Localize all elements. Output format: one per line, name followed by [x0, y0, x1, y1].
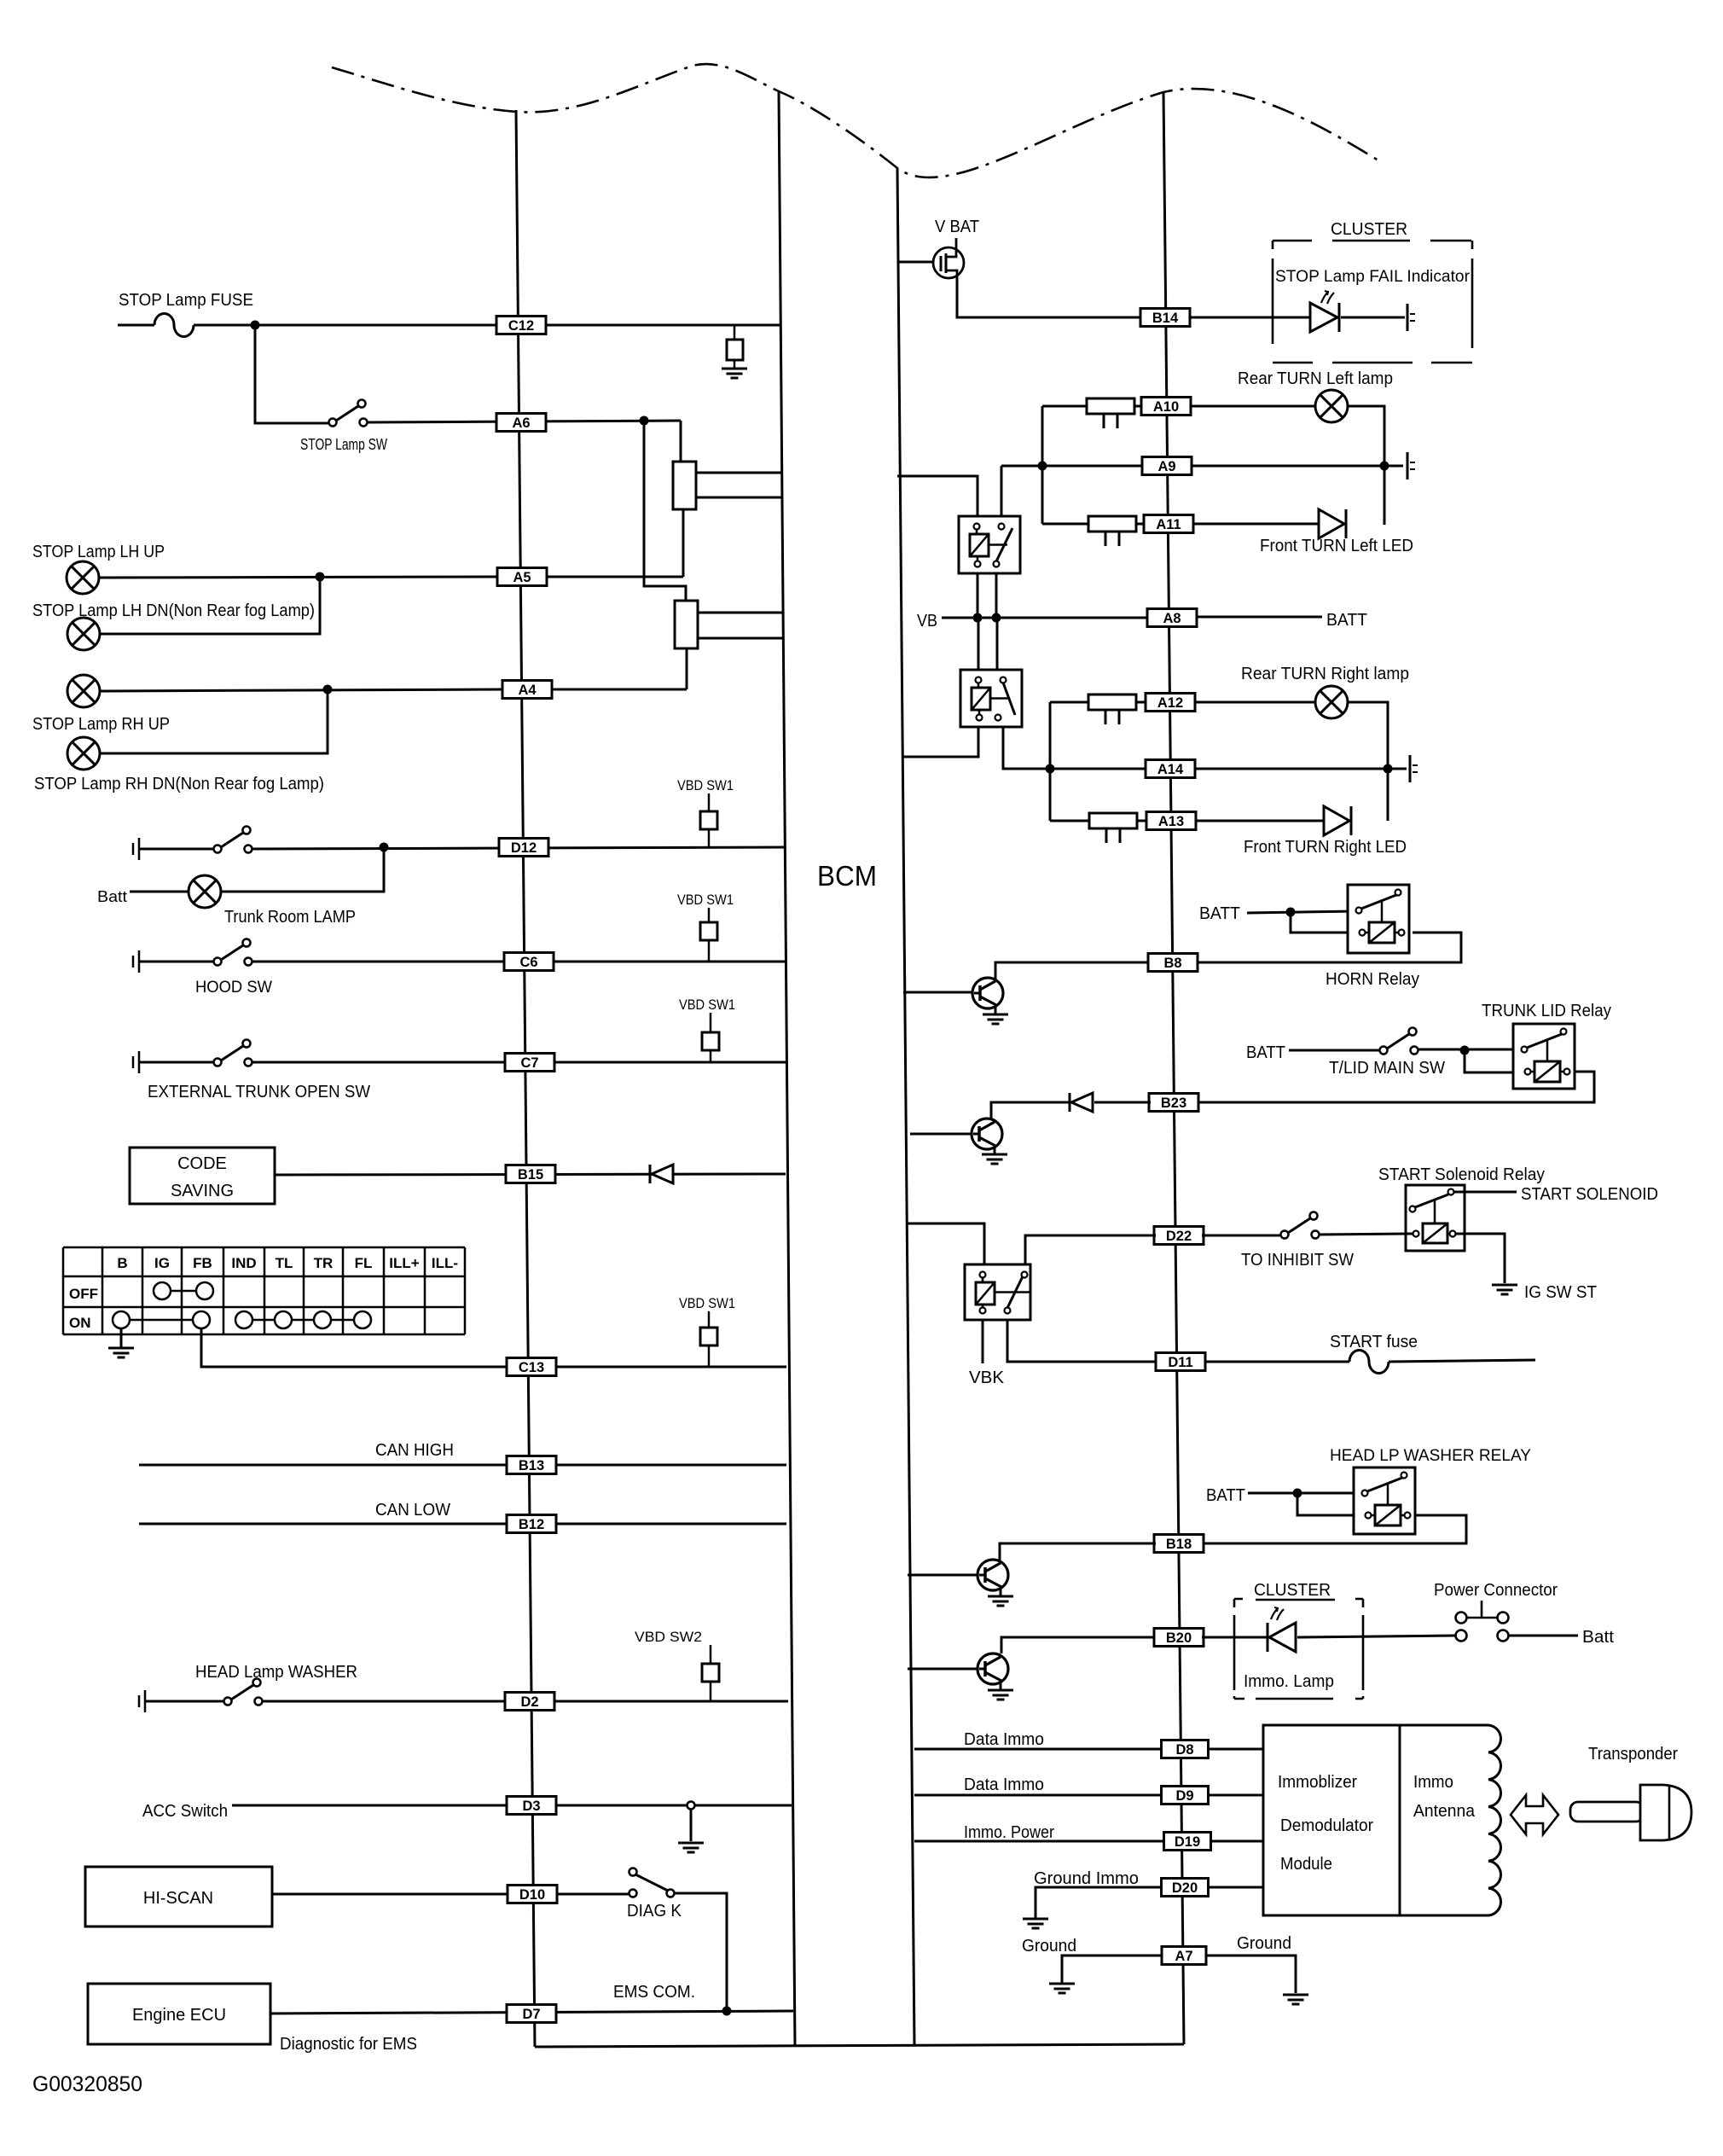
svg-text:Ground: Ground	[1237, 1934, 1291, 1953]
resistor A10 ballast	[1087, 398, 1134, 428]
node RH junction	[323, 685, 333, 694]
wire start coil to IG SW ST ground	[1455, 1234, 1505, 1283]
connector pin A4	[502, 681, 552, 699]
connector pin D10	[508, 1886, 557, 1903]
transistor Q2 trunk driver	[972, 1119, 1002, 1149]
connector pin A8	[1147, 609, 1197, 627]
wire A14 line	[1050, 768, 1388, 770]
svg-text:EMS COM.: EMS COM.	[613, 1983, 695, 2002]
svg-text:IG: IG	[154, 1255, 170, 1271]
svg-text:Data Immo: Data Immo	[964, 1775, 1044, 1794]
wire B contact to ground	[120, 1328, 123, 1348]
wire VBK BL stub	[982, 1320, 984, 1363]
wire gnd to trunk switch	[139, 848, 213, 851]
wire immo LED to power connector	[1297, 1636, 1455, 1637]
ground chassis at hood switch	[133, 950, 139, 973]
diode at B15	[650, 1165, 673, 1183]
wire hood switch to C6 to BCM	[252, 961, 785, 963]
resistor A12 ballast	[1088, 694, 1136, 724]
node trunk lamp junction	[380, 843, 389, 852]
fuse STOP Lamp FUSE	[154, 314, 194, 337]
svg-text:Rear TURN Right lamp: Rear TURN Right lamp	[1241, 665, 1409, 683]
svg-text:CLUSTER: CLUSTER	[1331, 220, 1407, 239]
svg-text:VBD SW2: VBD SW2	[635, 1629, 702, 1645]
wire junction to A11 resistor	[1042, 523, 1088, 526]
svg-text:D22: D22	[1166, 1229, 1192, 1244]
svg-text:A12: A12	[1157, 695, 1183, 711]
wire block2 bottom to A4 line	[686, 648, 688, 689]
svg-text:OFF: OFF	[69, 1286, 98, 1302]
node VB relay1 left	[973, 613, 983, 623]
svg-text:HORN Relay: HORN Relay	[1326, 970, 1419, 989]
switch trunk room lamp switch	[214, 827, 252, 853]
switch TO INHIBIT SW	[1281, 1212, 1320, 1239]
LED STOP Lamp FAIL Indicator	[1310, 303, 1339, 332]
svg-text:D3: D3	[522, 1799, 540, 1814]
node A14 junction	[1046, 764, 1055, 774]
block HI-SCAN	[85, 1867, 272, 1926]
wire junction to washer coil	[1297, 1493, 1361, 1515]
wire right connector bus	[1163, 92, 1184, 2044]
wire relay to START SOLENOID	[1454, 1191, 1517, 1194]
wire junction to trunk coil	[1465, 1050, 1520, 1072]
wire BCM to flasher relay 1	[897, 476, 978, 516]
switch STOP Lamp SW	[329, 400, 368, 427]
connector pin D2	[505, 1693, 554, 1711]
wire B8 to horn relay coil	[1197, 933, 1461, 962]
svg-text:A6: A6	[512, 416, 530, 431]
wire Q3 emitter to ground	[1000, 1587, 1002, 1595]
svg-text:FL: FL	[355, 1255, 373, 1271]
wire BCM to Q1 base	[903, 991, 972, 994]
wire block1 out lower	[696, 497, 781, 499]
block CODE SAVING	[130, 1148, 275, 1204]
connector pin A6	[496, 414, 546, 432]
svg-text:IND: IND	[231, 1255, 256, 1271]
svg-text:HI-SCAN: HI-SCAN	[143, 1889, 213, 1908]
connector pin C13	[507, 1358, 556, 1376]
block CLUSTER dashed outline	[1273, 241, 1472, 363]
wire RH UP lamp to A4	[100, 689, 502, 691]
svg-text:B: B	[117, 1255, 127, 1271]
connector pin B20	[1154, 1629, 1204, 1647]
wire BCM to Q3 base	[908, 1574, 978, 1577]
connector pin A13	[1146, 812, 1196, 830]
symbol indicator arrows B14	[1321, 291, 1334, 304]
LED Immo. Lamp	[1268, 1623, 1296, 1652]
wire A11 to front left LED	[1192, 523, 1319, 526]
connector pin A12	[1146, 694, 1195, 712]
wire LH UP lamp to A5	[99, 577, 496, 578]
wire VB to flasher relay 2 left	[978, 618, 980, 670]
wire D9 to module	[1209, 1794, 1263, 1797]
svg-text:G00320850: G00320850	[32, 2072, 142, 2096]
svg-text:C6: C6	[519, 955, 537, 970]
wire B20 to immo LED	[1202, 1636, 1269, 1639]
wire junction down to stop lamp switch	[255, 325, 328, 423]
wire lamp to right rail 2	[1348, 702, 1388, 821]
node right rail junction	[1380, 462, 1389, 471]
ground below sense resistor	[722, 369, 747, 378]
wire D22 to inhibit switch	[1202, 1235, 1281, 1237]
connector pin A7	[1162, 1947, 1206, 1965]
wire A9 junction bus	[1041, 406, 1044, 524]
svg-text:TRUNK LID Relay: TRUNK LID Relay	[1482, 1002, 1611, 1020]
wire D19 line	[914, 1840, 1164, 1843]
svg-text:Ground Immo: Ground Immo	[1034, 1869, 1139, 1888]
lamp STOP Lamp RH UP	[67, 675, 100, 707]
wire diode to Q2	[991, 1102, 1070, 1119]
svg-text:START Solenoid Relay: START Solenoid Relay	[1378, 1165, 1545, 1184]
svg-text:D8: D8	[1175, 1742, 1193, 1758]
wire D20 ground line	[1036, 1887, 1162, 1918]
wire washer switch to D2 to BCM	[263, 1700, 788, 1703]
transistor Q4 immo lamp driver	[978, 1653, 1008, 1684]
svg-text:STOP Lamp LH UP: STOP Lamp LH UP	[32, 543, 165, 561]
wire block2 out upper	[698, 612, 782, 614]
svg-text:Immo. Lamp: Immo. Lamp	[1244, 1672, 1334, 1691]
svg-text:A9: A9	[1157, 459, 1175, 474]
svg-text:HEAD Lamp WASHER: HEAD Lamp WASHER	[195, 1663, 357, 1682]
terminal end A9 line	[1407, 452, 1415, 479]
svg-text:Trunk Room LAMP: Trunk Room LAMP	[224, 908, 356, 927]
relay VBK	[965, 1264, 1030, 1320]
svg-text:ON: ON	[69, 1315, 91, 1331]
lamp STOP Lamp RH DN	[67, 737, 100, 770]
svg-text:B8: B8	[1163, 956, 1181, 971]
svg-text:Immo. Power: Immo. Power	[964, 1823, 1054, 1842]
svg-text:A10: A10	[1153, 399, 1179, 415]
svg-text:SAVING: SAVING	[171, 1182, 234, 1200]
wire Engine ECU to D7 to BCM	[270, 2011, 793, 2014]
svg-text:TO INHIBIT SW: TO INHIBIT SW	[1241, 1251, 1354, 1270]
svg-text:Rear TURN Left lamp: Rear TURN Left lamp	[1238, 369, 1393, 388]
connector pin A9	[1142, 457, 1192, 475]
connector pin A14	[1146, 760, 1195, 778]
connector pin D9	[1162, 1787, 1209, 1804]
wire gnd to ext trunk switch	[139, 1061, 213, 1064]
ground IG SW ST	[1492, 1285, 1517, 1294]
wire inhibit switch to start coil	[1319, 1234, 1413, 1235]
resistor A11 ballast	[1088, 516, 1136, 546]
wire A7 to ground right	[1206, 1956, 1296, 1993]
svg-text:VBK: VBK	[969, 1369, 1005, 1387]
symbol transponder coupling arrow	[1511, 1795, 1558, 1834]
lamp Rear TURN Right lamp	[1315, 686, 1348, 718]
svg-text:BATT: BATT	[1246, 1043, 1285, 1062]
ground A7 left	[1049, 1984, 1075, 1993]
transistor Q1 horn driver	[972, 978, 1003, 1008]
wire block1 out upper	[696, 472, 781, 474]
ground Q4 emitter	[988, 1690, 1013, 1700]
svg-text:Ground: Ground	[1022, 1937, 1076, 1956]
terminal end A14 line	[1410, 755, 1418, 782]
svg-text:IG SW ST: IG SW ST	[1524, 1283, 1597, 1302]
svg-text:D9: D9	[1175, 1788, 1193, 1804]
wire BCM bottom edge	[535, 2044, 1184, 2047]
lamp Rear TURN Left lamp	[1315, 390, 1348, 422]
wire resistor to A11	[1136, 523, 1145, 526]
svg-text:Module: Module	[1280, 1855, 1332, 1874]
wire Q1 collector to B8	[995, 962, 1149, 981]
component VBD SW1 box	[700, 908, 717, 962]
block Engine ECU	[88, 1984, 270, 2044]
svg-text:VBD SW1: VBD SW1	[679, 1295, 735, 1311]
node horn batt junction	[1286, 908, 1296, 917]
switch HEAD Lamp WASHER	[224, 1679, 263, 1706]
wire resistor to A10	[1134, 405, 1142, 408]
lamp Trunk Room LAMP	[189, 875, 221, 908]
svg-text:B20: B20	[1166, 1630, 1192, 1646]
connector pin A11	[1144, 515, 1193, 533]
svg-text:CODE: CODE	[177, 1154, 227, 1173]
relay turn flasher left	[959, 516, 1020, 573]
node tap on D3 line	[687, 1802, 695, 1810]
block Immo Antenna coil	[1400, 1725, 1501, 1915]
wire resistor to A12	[1136, 701, 1146, 704]
svg-text:HEAD LP WASHER RELAY: HEAD LP WASHER RELAY	[1330, 1447, 1531, 1465]
relay HEAD LP WASHER	[1354, 1467, 1415, 1534]
svg-text:TR: TR	[314, 1255, 334, 1271]
wire BATT to t/lid switch	[1289, 1049, 1379, 1052]
svg-text:STOP Lamp RH DN(Non Rear fog L: STOP Lamp RH DN(Non Rear fog Lamp)	[34, 775, 324, 793]
svg-text:T/LID MAIN SW: T/LID MAIN SW	[1329, 1059, 1445, 1078]
svg-text:Antenna: Antenna	[1413, 1802, 1476, 1821]
fuse START fuse	[1349, 1351, 1389, 1374]
symbol indicator arrows immo	[1271, 1607, 1284, 1620]
wire A8 to BATT	[1196, 616, 1322, 619]
wire ext trunk switch to C7 to BCM	[252, 1061, 786, 1064]
connector pin D8	[1162, 1740, 1209, 1758]
svg-text:START SOLENOID: START SOLENOID	[1521, 1185, 1658, 1204]
svg-text:D7: D7	[522, 2007, 540, 2022]
LED Front TURN Left	[1319, 509, 1346, 538]
svg-text:STOP Lamp LH DN(Non Rear fog L: STOP Lamp LH DN(Non Rear fog Lamp)	[32, 601, 315, 620]
node VB relay1 right	[992, 613, 1001, 623]
connector pin B12	[507, 1515, 556, 1533]
ground chassis at washer switch	[139, 1690, 145, 1712]
wire junction to trunk lamp	[221, 847, 384, 892]
svg-text:D20: D20	[1172, 1880, 1198, 1896]
table OFF contacts IG-FB	[154, 1282, 213, 1299]
wire D9 line	[914, 1794, 1162, 1797]
svg-text:C13: C13	[519, 1360, 544, 1375]
svg-text:B23: B23	[1161, 1095, 1186, 1111]
svg-text:B12: B12	[519, 1517, 544, 1532]
svg-text:D2: D2	[520, 1694, 538, 1710]
svg-text:STOP Lamp FAIL Indicator: STOP Lamp FAIL Indicator	[1275, 268, 1471, 286]
svg-text:D12: D12	[511, 840, 537, 856]
diode at B23	[1070, 1093, 1093, 1112]
svg-text:Batt: Batt	[1582, 1628, 1614, 1647]
wire A12-A13 junction bus	[1049, 702, 1052, 821]
wire t/lid switch to relay	[1418, 1049, 1517, 1051]
component VBD SW2 box	[702, 1645, 719, 1701]
node A6 branch	[640, 416, 649, 426]
wire switch to A6 to junction	[368, 421, 681, 422]
ground chassis at trunk switch	[133, 838, 139, 860]
wire BCM to Q2 base	[910, 1133, 972, 1136]
svg-text:A5: A5	[513, 570, 531, 585]
connector pin C12	[496, 317, 546, 334]
svg-text:BCM: BCM	[817, 860, 877, 892]
connector pin B18	[1154, 1535, 1204, 1553]
relay START Solenoid Relay	[1406, 1185, 1465, 1251]
lamp STOP Lamp LH UP	[67, 561, 99, 594]
transistor V BAT high-side driver	[933, 238, 964, 278]
connector pin B23	[1149, 1094, 1198, 1112]
connector pin C6	[504, 953, 554, 971]
connector pin A10	[1141, 398, 1191, 416]
svg-text:A7: A7	[1175, 1949, 1192, 1964]
svg-text:Demodulator: Demodulator	[1280, 1816, 1373, 1835]
svg-text:Transponder: Transponder	[1588, 1745, 1678, 1764]
lamp STOP Lamp LH DN	[67, 618, 100, 650]
wire BCM to V BAT gate	[897, 261, 934, 264]
wire resistor to A13	[1137, 820, 1147, 822]
svg-text:Diagnostic for EMS: Diagnostic for EMS	[280, 2035, 417, 2054]
wire B18 to Q3 collector	[1000, 1543, 1156, 1560]
svg-text:A14: A14	[1157, 762, 1184, 777]
wire D3 tap to ground	[690, 1809, 693, 1841]
LED Front TURN Right	[1324, 806, 1351, 835]
wire relay2 BL to BCM	[903, 727, 978, 757]
wire Q4 emitter to ground	[1000, 1681, 1002, 1689]
wire VB to flasher relay 2 right	[996, 618, 999, 670]
wire A6 to resistor block 1	[680, 421, 682, 462]
svg-text:Immo: Immo	[1413, 1773, 1453, 1792]
node A9 junction	[1038, 462, 1047, 471]
svg-text:C12: C12	[508, 318, 534, 334]
wire VBK BR to D11	[1007, 1320, 1156, 1362]
component dropping resistor block 2	[675, 601, 698, 648]
svg-text:FB: FB	[193, 1255, 212, 1271]
connector pin B14	[1140, 309, 1190, 327]
table ON contacts B-FB and IND-TL-TR-FL	[113, 1311, 371, 1328]
wire power connector to Batt	[1509, 1635, 1578, 1637]
component VBD SW1 box	[702, 1013, 719, 1062]
svg-text:Engine ECU: Engine ECU	[132, 2006, 226, 2025]
wire RH DN lamp branch	[100, 689, 328, 753]
svg-text:VBD SW1: VBD SW1	[679, 997, 735, 1013]
wire BCM right wall	[897, 168, 914, 2045]
wire junction to A13 resistor	[1050, 820, 1089, 822]
node washer batt junction	[1293, 1489, 1302, 1498]
svg-text:BATT: BATT	[1326, 611, 1367, 630]
wire BATT branch to horn coil	[1291, 912, 1356, 933]
wire A12 to rear right lamp	[1194, 701, 1315, 704]
connector pin D22	[1154, 1227, 1204, 1245]
wire ground to A7	[1062, 1956, 1162, 1984]
connector pin C7	[505, 1054, 554, 1072]
svg-text:VB: VB	[917, 612, 937, 631]
wire BATT to washer relay	[1248, 1492, 1361, 1495]
wire relay1 BL down	[977, 573, 979, 618]
svg-text:D10: D10	[519, 1887, 545, 1903]
svg-text:STOP Lamp SW: STOP Lamp SW	[300, 436, 387, 453]
wire A5 to block1	[547, 576, 683, 578]
svg-text:EXTERNAL TRUNK OPEN SW: EXTERNAL TRUNK OPEN SW	[148, 1083, 370, 1101]
svg-text:A4: A4	[518, 683, 537, 698]
wire lamp to right rail	[1348, 406, 1384, 525]
switch T/LID MAIN SW	[1380, 1028, 1418, 1055]
svg-text:D19: D19	[1175, 1834, 1200, 1850]
component sense resistor at C12	[727, 325, 743, 369]
wire D20 to module	[1209, 1886, 1263, 1889]
wire BATT to horn relay switch	[1247, 911, 1356, 913]
wire CAN HIGH	[139, 1464, 786, 1467]
wire left connector bus	[516, 110, 535, 2047]
ground chassis at ext trunk switch	[133, 1051, 139, 1073]
wire trunk switch to D12 to BCM	[252, 847, 784, 849]
svg-text:STOP Lamp FUSE: STOP Lamp FUSE	[119, 291, 253, 310]
relay HORN Relay	[1348, 885, 1409, 953]
svg-text:ACC Switch: ACC Switch	[142, 1802, 228, 1821]
wire HI-SCAN to D10	[272, 1893, 508, 1896]
wire code saving to B15	[275, 1174, 786, 1175]
wire ACC switch to D3 to BCM	[232, 1804, 792, 1807]
wire BCM left wall	[779, 91, 795, 2047]
svg-text:VBD SW1: VBD SW1	[677, 892, 734, 908]
terminal end B14 line	[1407, 304, 1415, 331]
svg-text:A13: A13	[1158, 814, 1184, 829]
ground Q3 emitter	[988, 1596, 1013, 1606]
wire A9 line	[1001, 465, 1384, 468]
switch HOOD SW	[214, 939, 252, 966]
svg-text:BATT: BATT	[1199, 904, 1240, 923]
svg-text:B14: B14	[1152, 311, 1179, 326]
svg-text:ILL-: ILL-	[432, 1255, 458, 1271]
node EMS COM junction	[722, 2007, 732, 2016]
connector pin D3	[507, 1797, 556, 1815]
svg-text:Front TURN Left LED: Front TURN Left LED	[1260, 537, 1413, 555]
wire Q2 emitter to ground	[994, 1146, 996, 1154]
wire rail2 to end	[1388, 768, 1407, 770]
wire relay1 BR down	[995, 573, 998, 618]
svg-text:TL: TL	[276, 1255, 293, 1271]
wire relay1 TR pin up to A9 line	[1001, 466, 1003, 516]
svg-text:DIAG K: DIAG K	[627, 1902, 682, 1921]
wire LH DN lamp branch	[100, 577, 320, 634]
transistor Q3 washer driver	[978, 1560, 1008, 1590]
svg-text:STOP Lamp RH UP: STOP Lamp RH UP	[32, 715, 170, 734]
connector pin B8	[1148, 954, 1198, 972]
wire junction to A12 resistor	[1050, 701, 1088, 704]
resistor A13 ballast	[1089, 813, 1137, 843]
wire B14 to cluster LED	[1189, 317, 1310, 319]
wire D10 to DIAG K	[558, 1893, 629, 1896]
ground Q1 emitter	[983, 1014, 1008, 1024]
wire DIAG K to EMS COM line	[675, 1893, 727, 2011]
wire gnd to washer switch	[145, 1700, 223, 1703]
component VBD SW1 box	[700, 793, 717, 847]
svg-text:D11: D11	[1168, 1355, 1192, 1370]
svg-text:ILL+: ILL+	[389, 1255, 419, 1271]
svg-text:CLUSTER: CLUSTER	[1254, 1581, 1331, 1600]
table key-switch states	[63, 1247, 465, 1334]
connector pin D12	[499, 839, 548, 857]
block CLUSTER immo dashed outline	[1234, 1599, 1363, 1699]
node fuse junction	[251, 321, 260, 330]
relay turn flasher right	[960, 670, 1022, 727]
wire V BAT to B14 line	[957, 278, 1141, 317]
node LH junction	[316, 572, 325, 582]
wire A4 to block2	[552, 689, 687, 691]
svg-text:B18: B18	[1166, 1537, 1192, 1552]
symbol transponder key	[1570, 1785, 1691, 1840]
wire trunk coil to B23	[1197, 1072, 1594, 1102]
wire fuse to C12 to BCM	[194, 324, 780, 327]
